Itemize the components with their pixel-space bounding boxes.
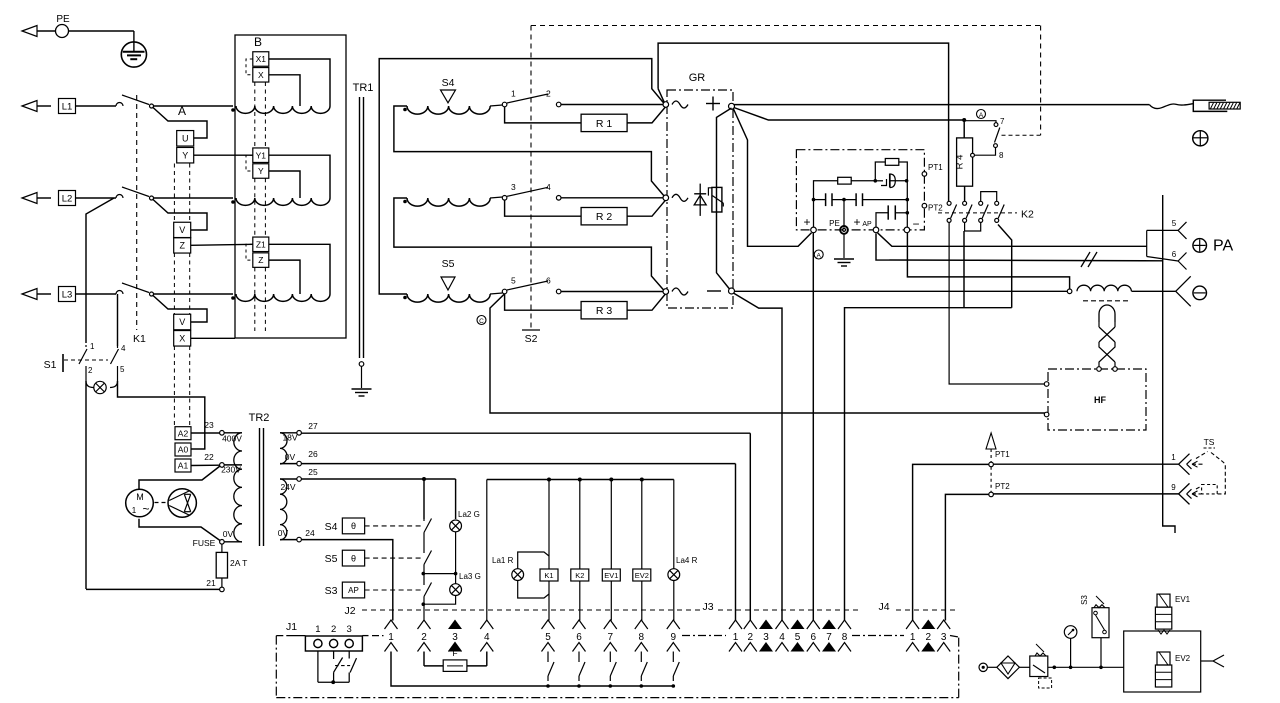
svg-text:HF: HF xyxy=(1094,395,1106,405)
svg-text:EV1: EV1 xyxy=(1175,595,1191,604)
svg-text:4: 4 xyxy=(546,182,551,192)
svg-text:PE: PE xyxy=(829,219,840,228)
svg-text:PT2: PT2 xyxy=(928,204,943,213)
svg-text:La2 G: La2 G xyxy=(458,510,480,519)
svg-text:A1: A1 xyxy=(178,461,189,471)
svg-text:K2: K2 xyxy=(1021,209,1034,221)
svg-text:7: 7 xyxy=(826,632,832,643)
svg-text:TS: TS xyxy=(1204,437,1215,447)
svg-text:B: B xyxy=(254,35,262,49)
svg-text:2: 2 xyxy=(88,366,93,375)
svg-text:U: U xyxy=(182,134,189,144)
svg-text:+: + xyxy=(803,215,810,229)
svg-text:La3 G: La3 G xyxy=(459,572,481,581)
svg-text:6: 6 xyxy=(546,276,551,286)
svg-text:K1: K1 xyxy=(544,571,553,580)
svg-text:EV1: EV1 xyxy=(604,571,618,580)
svg-text:PT2: PT2 xyxy=(995,482,1010,491)
svg-text:3: 3 xyxy=(763,632,769,643)
svg-text:La4 R: La4 R xyxy=(676,556,698,565)
svg-text:6: 6 xyxy=(1172,250,1177,259)
svg-text:1: 1 xyxy=(388,632,394,643)
svg-text:Y1: Y1 xyxy=(256,150,267,160)
svg-text:26: 26 xyxy=(308,449,318,459)
svg-text:X: X xyxy=(258,70,264,80)
svg-text:3: 3 xyxy=(941,632,947,643)
svg-text:23: 23 xyxy=(204,420,214,430)
svg-text:Y: Y xyxy=(182,150,188,160)
svg-text:2A T: 2A T xyxy=(230,558,247,568)
svg-text:1: 1 xyxy=(733,632,739,643)
svg-text:8: 8 xyxy=(639,632,645,643)
svg-text:S4: S4 xyxy=(442,77,455,89)
svg-text:25: 25 xyxy=(308,467,318,477)
svg-text:R 3: R 3 xyxy=(596,305,613,317)
svg-text:Z: Z xyxy=(179,241,185,251)
svg-text:2: 2 xyxy=(748,632,754,643)
svg-text:22: 22 xyxy=(204,452,214,462)
svg-text:J3: J3 xyxy=(702,601,713,613)
svg-text:FUSE: FUSE xyxy=(193,538,216,548)
svg-text:AP: AP xyxy=(862,221,872,228)
svg-text:7: 7 xyxy=(608,632,614,643)
svg-text:1: 1 xyxy=(511,89,516,99)
svg-text:A: A xyxy=(817,253,822,260)
svg-text:L2: L2 xyxy=(62,193,73,204)
svg-text:A0: A0 xyxy=(178,445,189,455)
svg-text:0V: 0V xyxy=(285,452,296,462)
svg-text:8: 8 xyxy=(999,151,1004,160)
svg-text:PE: PE xyxy=(56,14,70,25)
svg-text:3: 3 xyxy=(511,182,516,192)
svg-text:6: 6 xyxy=(811,632,817,643)
svg-text:0V: 0V xyxy=(278,528,289,538)
svg-text:A2: A2 xyxy=(178,428,189,438)
svg-text:−: − xyxy=(912,217,919,231)
svg-text:Z: Z xyxy=(258,255,263,265)
svg-text:A: A xyxy=(979,112,984,119)
svg-text:24V: 24V xyxy=(280,482,295,492)
svg-text:Z1: Z1 xyxy=(256,239,266,249)
svg-text:V: V xyxy=(179,317,185,327)
svg-text:S3: S3 xyxy=(1080,595,1089,605)
svg-text:2: 2 xyxy=(331,624,336,635)
svg-text:8: 8 xyxy=(842,632,848,643)
svg-text:2: 2 xyxy=(546,89,551,99)
svg-text:9: 9 xyxy=(1171,483,1176,492)
svg-text:~: ~ xyxy=(142,502,149,516)
svg-text:PT1: PT1 xyxy=(928,163,943,172)
svg-text:X1: X1 xyxy=(256,54,267,64)
svg-text:5: 5 xyxy=(545,632,551,643)
svg-text:EV2: EV2 xyxy=(635,571,649,580)
svg-text:S5: S5 xyxy=(442,258,455,270)
svg-text:5: 5 xyxy=(511,276,516,286)
svg-text:La1 R: La1 R xyxy=(492,556,514,565)
svg-text:7: 7 xyxy=(1000,117,1005,126)
svg-text:M: M xyxy=(136,492,144,502)
svg-text:4: 4 xyxy=(121,344,126,353)
svg-text:PT1: PT1 xyxy=(995,450,1010,459)
svg-text:EV2: EV2 xyxy=(1175,654,1191,663)
svg-text:J1: J1 xyxy=(286,621,297,633)
svg-text:S4: S4 xyxy=(325,521,338,533)
svg-text:3: 3 xyxy=(347,624,352,635)
svg-text:1: 1 xyxy=(910,632,916,643)
svg-text:230V: 230V xyxy=(221,465,241,475)
svg-text:A: A xyxy=(178,104,186,118)
svg-text:AP: AP xyxy=(348,586,359,595)
svg-text:18V: 18V xyxy=(282,433,297,443)
svg-text:C: C xyxy=(479,318,484,325)
svg-text:PA: PA xyxy=(1213,238,1233,255)
svg-text:X: X xyxy=(179,334,185,344)
svg-text:21: 21 xyxy=(206,578,216,588)
svg-text:TR1: TR1 xyxy=(353,82,374,94)
svg-text:+: + xyxy=(853,215,860,229)
svg-text:R 2: R 2 xyxy=(596,211,613,223)
svg-text:5: 5 xyxy=(1172,219,1177,228)
svg-text:L1: L1 xyxy=(62,101,73,112)
svg-text:R 4: R 4 xyxy=(955,155,966,170)
svg-text:1: 1 xyxy=(132,506,137,515)
svg-text:J4: J4 xyxy=(878,601,889,613)
svg-text:J2: J2 xyxy=(344,605,355,617)
svg-text:θ: θ xyxy=(351,521,356,531)
svg-text:TR2: TR2 xyxy=(249,412,270,424)
svg-text:9: 9 xyxy=(671,632,677,643)
svg-text:K2: K2 xyxy=(575,571,584,580)
svg-text:27: 27 xyxy=(308,421,318,431)
svg-text:S5: S5 xyxy=(325,553,338,565)
svg-text:V: V xyxy=(179,225,185,235)
svg-text:Y: Y xyxy=(258,166,264,176)
svg-text:5: 5 xyxy=(795,632,801,643)
svg-text:S2: S2 xyxy=(525,333,538,345)
svg-text:1: 1 xyxy=(315,624,320,635)
svg-text:400V: 400V xyxy=(222,434,242,444)
svg-text:6: 6 xyxy=(576,632,582,643)
svg-text:S3: S3 xyxy=(325,585,338,597)
svg-text:L3: L3 xyxy=(62,289,73,300)
svg-text:4: 4 xyxy=(779,632,785,643)
svg-text:GR: GR xyxy=(689,72,706,84)
svg-text:1: 1 xyxy=(90,342,95,351)
svg-text:2: 2 xyxy=(421,632,427,643)
svg-text:S1: S1 xyxy=(44,359,57,371)
svg-text:5: 5 xyxy=(120,365,125,374)
svg-text:2: 2 xyxy=(926,632,932,643)
svg-text:K1: K1 xyxy=(133,333,146,345)
svg-text:0V: 0V xyxy=(223,529,234,539)
svg-text:3: 3 xyxy=(452,632,458,643)
svg-text:4: 4 xyxy=(484,632,490,643)
svg-text:24: 24 xyxy=(305,528,315,538)
svg-text:1: 1 xyxy=(1171,453,1176,462)
svg-text:θ: θ xyxy=(351,553,356,563)
svg-text:R 1: R 1 xyxy=(596,118,613,130)
